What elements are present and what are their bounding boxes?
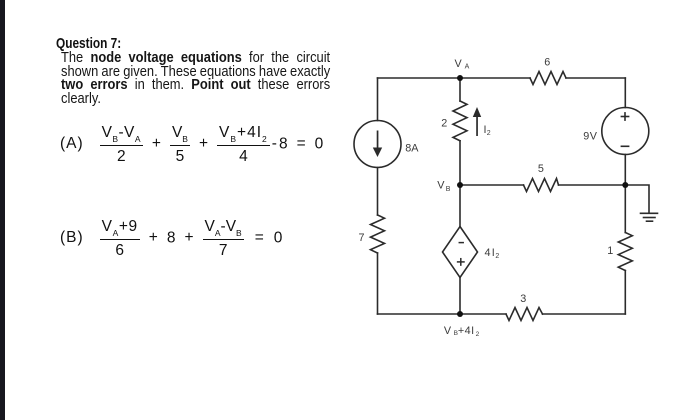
ground symbol (641, 212, 658, 214)
current arrow I2 (473, 107, 481, 136)
diamond plus sign (458, 261, 464, 263)
resistor R2 (453, 101, 467, 141)
svg-text:7: 7 (359, 232, 365, 244)
node A dot (457, 75, 463, 81)
svg-text:1: 1 (607, 245, 613, 257)
wire top rail right (566, 77, 625, 79)
svg-text:2: 2 (441, 118, 447, 130)
svg-text:9 V: 9 V (583, 130, 597, 142)
wire diamond top (459, 185, 461, 227)
wire VB rail right (559, 184, 626, 186)
wire top rail (378, 77, 531, 79)
svg-text:V: V (444, 325, 452, 337)
node bottom dot (457, 311, 463, 317)
diamond minus sign (459, 242, 463, 244)
svg-text:B: B (446, 186, 451, 193)
wire ground branch (625, 185, 649, 213)
svg-text:2: 2 (495, 253, 499, 260)
9V minus sign (621, 145, 628, 147)
left black strip (0, 0, 5, 420)
svg-text:V: V (455, 58, 463, 70)
resistor R5 (524, 179, 559, 192)
resistor R1 (618, 233, 632, 271)
wire left middle (377, 168, 379, 216)
wire VB rail (460, 184, 524, 186)
resistor R7 (371, 215, 385, 253)
wire left top (377, 78, 379, 121)
voltage source V 9V circle (602, 108, 649, 155)
resistor R6 (530, 72, 566, 85)
wire right bottom (624, 271, 626, 315)
node B dot (457, 182, 463, 188)
svg-text:3: 3 (520, 293, 526, 305)
svg-text:6: 6 (544, 57, 550, 69)
wire bottom rail (378, 313, 507, 315)
svg-text:2: 2 (476, 331, 480, 338)
equation B (60, 221, 282, 257)
wire middle branch top (459, 78, 461, 101)
9V plus sign (621, 116, 628, 118)
svg-text:A: A (465, 64, 470, 71)
svg-text:5: 5 (538, 163, 544, 175)
svg-text:V: V (437, 180, 445, 192)
wire bottom rail right (543, 313, 626, 315)
question title (56, 35, 121, 52)
equation A (60, 127, 323, 163)
wire diamond bottom (459, 278, 461, 315)
node right dot (622, 182, 628, 188)
svg-text:+ 4 I: + 4 I (458, 325, 474, 337)
wire left bottom (377, 253, 379, 314)
svg-text:4 I: 4 I (485, 247, 495, 259)
current source I 8A circle (354, 121, 401, 168)
svg-text:2: 2 (487, 130, 491, 137)
wire right top (624, 78, 626, 108)
question paragraph (61, 51, 330, 107)
svg-text:8 A: 8 A (405, 143, 419, 155)
dependent source 4I2 diamond (443, 227, 478, 278)
resistor R3 (506, 308, 543, 321)
wire right middle (624, 155, 626, 233)
current source arrow (373, 131, 382, 158)
wire middle to VB (459, 141, 461, 185)
